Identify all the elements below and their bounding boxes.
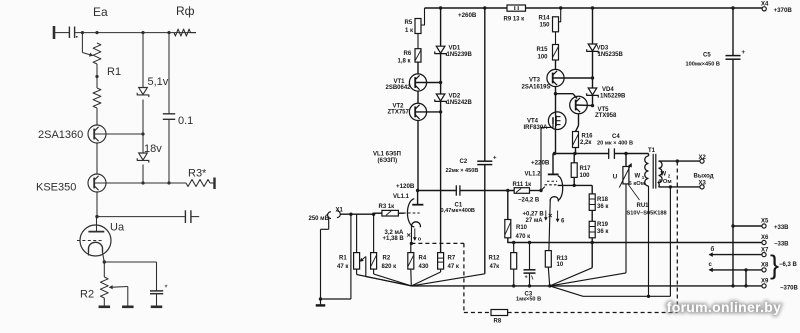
svg-text:100мк×450 В: 100мк×450 В [686,62,720,68]
svg-text:430: 430 [419,264,430,270]
svg-text:X9: X9 [761,278,769,284]
svg-text:R3*: R3* [188,168,207,180]
svg-text:X5: X5 [761,219,769,225]
svg-text:R12: R12 [489,255,501,261]
svg-text:1N5229В: 1N5229В [600,94,626,100]
svg-text:Rф: Rф [176,4,195,18]
svg-text:0,47мк×400В: 0,47мк×400В [441,208,475,214]
svg-text:VL1.2: VL1.2 [525,171,542,177]
svg-text:+1,38 В: +1,38 В [383,236,405,242]
svg-text:R9 13 к: R9 13 к [504,17,525,23]
svg-text:R2: R2 [80,289,94,301]
svg-text:ZTX958: ZTX958 [595,113,617,119]
svg-text:U: U [613,174,618,181]
svg-text:R6: R6 [404,51,412,57]
svg-text:S10V–S05K188: S10V–S05K188 [627,211,667,217]
svg-text:T1: T1 [648,148,656,154]
svg-text:+33В: +33В [774,225,789,231]
svg-text:W: W [635,173,641,179]
svg-text:Выход: Выход [694,174,714,180]
svg-text:820 к: 820 к [382,264,397,270]
svg-text:+220В: +220В [531,159,550,166]
svg-text:}: } [770,250,779,280]
svg-text:C2: C2 [460,159,468,165]
svg-text:X4: X4 [761,2,769,8]
svg-text:R17: R17 [580,166,592,172]
svg-text:22мк × 450В: 22мк × 450В [446,168,479,174]
svg-text:IRF830A: IRF830A [524,125,549,131]
svg-text:RU1: RU1 [637,203,650,209]
svg-text:1,8 к: 1,8 к [398,59,411,65]
svg-text:47к: 47к [490,264,500,270]
svg-text:20 мк × 400 В: 20 мк × 400 В [597,140,633,146]
svg-text:R7: R7 [448,255,456,261]
svg-text:1 к: 1 к [405,28,413,34]
svg-text:+370В: +370В [774,7,793,14]
svg-text:R4: R4 [419,255,427,261]
svg-text:VD3: VD3 [597,46,609,52]
svg-text:R11 1к: R11 1к [513,182,532,188]
svg-text:27 мА: 27 мА [526,218,544,224]
svg-text:R18: R18 [597,197,609,203]
svg-text:−24,2 В: −24,2 В [518,198,540,204]
svg-text:R10: R10 [516,225,528,231]
svg-text:VT3: VT3 [529,78,541,84]
svg-text:3,2 мА: 3,2 мА [385,230,404,236]
svg-text:36 к: 36 к [597,204,608,210]
svg-text:+260В: +260В [458,12,477,19]
svg-text:1N5242B: 1N5242B [447,100,473,106]
svg-text:R3 1к: R3 1к [379,204,395,210]
svg-text:250 мВ: 250 мВ [309,216,330,222]
svg-text:+: + [493,156,497,162]
svg-text:R15: R15 [537,47,549,53]
svg-text:2SB0642: 2SB0642 [386,85,412,91]
svg-text:−33В: −33В [774,242,789,248]
svg-text:б: б [711,246,715,253]
svg-text:forum.onliner.by: forum.onliner.by [667,299,781,315]
svg-text:150: 150 [540,22,551,28]
svg-text:R14: R14 [539,15,551,21]
svg-text:47 к: 47 к [337,264,348,270]
svg-text:C5: C5 [703,53,711,59]
svg-text:VD1: VD1 [449,46,461,52]
svg-text:×: × [548,211,553,220]
svg-text:+0,27 В: +0,27 В [523,211,545,217]
svg-text:×: × [407,231,412,240]
svg-text:+120В: +120В [396,183,415,190]
svg-text:R1: R1 [339,255,347,261]
svg-text:4 Ом: 4 Ом [658,179,672,185]
svg-text:X7: X7 [761,248,769,254]
svg-text:X2: X2 [699,155,707,161]
svg-text:R19: R19 [597,222,609,228]
svg-text:ZTX757: ZTX757 [388,110,410,116]
svg-text:R16: R16 [582,134,594,140]
svg-text:1N5239B: 1N5239B [447,52,473,58]
svg-text:VL1.1: VL1.1 [393,194,410,200]
svg-text:VL1 6Э5П: VL1 6Э5П [373,152,401,158]
svg-text:−6,3 В: −6,3 В [779,262,798,268]
svg-text:R5: R5 [405,20,413,26]
svg-text:Ea: Ea [93,5,108,19]
svg-text:2SA1360: 2SA1360 [38,129,83,141]
svg-text:100: 100 [538,55,549,61]
svg-text:R1: R1 [107,66,121,78]
svg-text:0.1: 0.1 [178,115,193,127]
svg-text:KSE350: KSE350 [36,182,76,194]
svg-text:X6: X6 [761,235,769,241]
svg-text:C4: C4 [612,134,620,140]
svg-text:+: + [742,50,746,56]
svg-text:+: + [525,275,528,281]
svg-text:100: 100 [580,173,591,179]
svg-text:5,1v: 5,1v [148,76,169,88]
svg-text:Ua: Ua [110,222,125,234]
svg-text:2,2к: 2,2к [580,140,591,146]
svg-text:1N5235B: 1N5235B [598,52,624,58]
svg-text:(6ЭЗП): (6ЭЗП) [378,158,398,164]
svg-text:−370В: −370В [780,285,799,291]
svg-text:R2: R2 [383,255,391,261]
svg-text:X8: X8 [761,263,769,269]
svg-text:5 кОм: 5 кОм [629,181,646,187]
svg-text:R8: R8 [494,319,502,325]
svg-text:1мк×50 В: 1мк×50 В [516,297,541,303]
svg-text:47 к: 47 к [448,264,459,270]
svg-text:W: W [661,172,667,178]
svg-text:VT4: VT4 [527,118,539,124]
svg-text:X3: X3 [699,181,707,187]
svg-text:36 к: 36 к [597,229,608,235]
svg-text:*: * [165,284,168,293]
svg-text:VT5: VT5 [598,107,610,113]
svg-text:470 к: 470 к [516,234,531,240]
svg-text:R13: R13 [557,256,569,262]
svg-text:VD2: VD2 [449,94,461,100]
svg-text:10: 10 [557,262,564,268]
svg-text:2SA1619S: 2SA1619S [522,85,551,91]
svg-text:VD4: VD4 [602,87,614,93]
